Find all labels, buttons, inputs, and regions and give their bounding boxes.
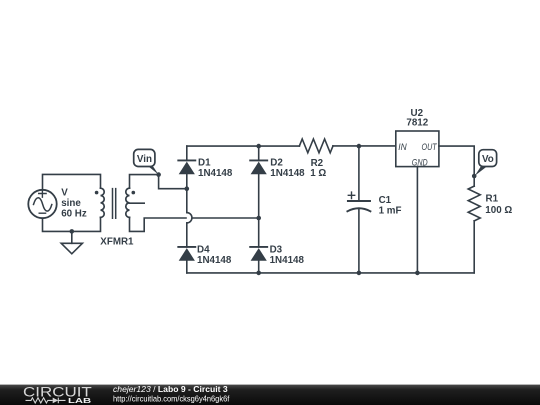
diode D3 xyxy=(250,247,267,261)
resistor R2 xyxy=(299,139,333,153)
svg-text:V: V xyxy=(61,188,68,199)
svg-text:Vo: Vo xyxy=(482,154,494,165)
node junction D2 D3 xyxy=(256,216,261,221)
wire transformer secondary bottom to D2 D3 node xyxy=(130,217,259,231)
node junction D2 top xyxy=(256,144,261,149)
wire Vin node to bridge left node xyxy=(159,175,187,189)
label U2 7812 xyxy=(406,108,428,129)
svg-text:1 mF: 1 mF xyxy=(379,206,402,217)
voltage source V1 xyxy=(28,190,56,218)
svg-text:D1: D1 xyxy=(198,157,211,168)
svg-text:1N4148: 1N4148 xyxy=(198,168,233,179)
svg-text:LAB: LAB xyxy=(68,396,91,405)
diode D1 xyxy=(178,160,195,174)
node junction D3 bottom xyxy=(256,271,261,276)
wire transformer secondary top to Vin node xyxy=(130,175,159,189)
node junction C1 bottom xyxy=(357,271,362,276)
svg-text:XFMR1: XFMR1 xyxy=(100,236,134,247)
wire bottom rail xyxy=(187,272,474,274)
svg-text:60 Hz: 60 Hz xyxy=(61,209,87,220)
svg-text:chejer123 / Labo 9 - Circuit 3: chejer123 / Labo 9 - Circuit 3 xyxy=(113,384,228,394)
wire U2 GND to bottom rail xyxy=(416,167,418,273)
label R2 1 ohm xyxy=(310,158,326,179)
svg-text:D2: D2 xyxy=(270,157,283,168)
node Vo junction dot xyxy=(472,174,477,179)
capacitor C1 xyxy=(347,192,370,211)
svg-text:D3: D3 xyxy=(270,245,283,256)
wire C1 top branch xyxy=(358,146,360,201)
wire middle bridge branch xyxy=(258,146,260,273)
node junction GND bottom xyxy=(415,271,420,276)
svg-text:IN: IN xyxy=(398,142,407,152)
resistor R1 xyxy=(468,176,480,273)
svg-text:1N4148: 1N4148 xyxy=(197,255,232,266)
label D3 1N4148 xyxy=(270,245,305,267)
svg-text:100 Ω: 100 Ω xyxy=(485,205,512,216)
logo schematic resistor and diode xyxy=(26,398,66,404)
svg-text:1N4148: 1N4148 xyxy=(270,255,305,266)
node flag Vin xyxy=(134,149,159,174)
svg-text:7812: 7812 xyxy=(406,118,428,129)
label D4 1N4148 xyxy=(197,245,232,267)
svg-text:GND: GND xyxy=(412,158,428,168)
svg-text:Vin: Vin xyxy=(137,154,152,165)
wire R2 to U2 IN xyxy=(333,145,396,147)
transformer XFMR1 xyxy=(95,188,144,218)
op-amp regulator U2 box xyxy=(396,131,439,167)
svg-text:D4: D4 xyxy=(197,245,210,256)
label V sine 60 Hz xyxy=(61,188,87,220)
diode D2 xyxy=(250,160,267,174)
wire left bridge branch xyxy=(186,146,188,273)
wire source top to transformer primary xyxy=(43,174,101,189)
svg-text:http://circuitlab.com/cksg6y4n: http://circuitlab.com/cksg6y4n6gk6f xyxy=(113,394,230,404)
wire U2 OUT to R1 top xyxy=(439,146,474,176)
label R1 100 ohm xyxy=(485,194,512,216)
wire source bottom to transformer primary bottom xyxy=(43,217,101,231)
svg-text:1N4148: 1N4148 xyxy=(270,168,305,179)
label C1 1 mF xyxy=(379,195,402,216)
node Vin junction dot xyxy=(156,172,161,177)
label D1 1N4148 xyxy=(198,157,233,179)
wire hop on left bridge branch xyxy=(187,213,192,223)
svg-text:C1: C1 xyxy=(379,195,392,206)
diode D4 xyxy=(178,247,195,261)
wire top rail xyxy=(187,145,300,147)
label D2 1N4148 xyxy=(270,157,305,179)
svg-text:OUT: OUT xyxy=(422,142,438,152)
svg-text:R1: R1 xyxy=(486,194,499,205)
svg-text:1 Ω: 1 Ω xyxy=(310,168,326,179)
node junction ground xyxy=(70,229,75,234)
node junction C1 top xyxy=(357,144,362,149)
node junction D1 anode xyxy=(185,186,190,191)
wire C1 bottom branch xyxy=(358,209,360,273)
svg-text:sine: sine xyxy=(61,198,81,209)
ground xyxy=(61,231,82,253)
footer bar xyxy=(0,384,540,405)
node flag Vo xyxy=(475,150,497,176)
